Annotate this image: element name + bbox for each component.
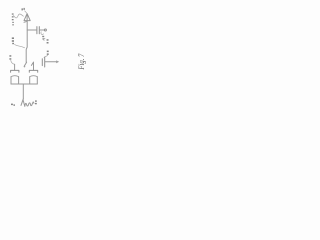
capacitor C26 bottom plate <box>30 75 38 78</box>
coil L30 <box>21 99 34 106</box>
label 30 <box>11 104 15 106</box>
capacitor C24 bottom plate <box>11 75 19 78</box>
svg-text:Fig. 7: Fig. 7 <box>76 53 86 71</box>
node label 10 <box>12 13 14 25</box>
capacitor C26 lead <box>33 62 35 70</box>
capacitor C16 <box>37 27 39 34</box>
antenna base tick <box>24 21 27 24</box>
ground bus <box>11 84 37 99</box>
capacitor C24 legs <box>11 77 19 84</box>
transistor Q2 lead arrow <box>31 62 33 65</box>
label 22 leader <box>43 38 45 40</box>
label 14 leader <box>15 44 25 47</box>
capacitor C34 <box>42 57 44 67</box>
output wire <box>45 61 57 63</box>
label 14 <box>12 37 14 44</box>
wire branch to C16 <box>27 29 36 31</box>
capacitor C26 top plate <box>29 70 37 72</box>
label 16 <box>42 36 44 40</box>
label 22 <box>47 39 49 43</box>
node label 12 leader <box>25 11 27 13</box>
junction dot <box>24 66 26 68</box>
label 34 leader <box>44 55 48 57</box>
wire antenna to node <box>26 21 27 62</box>
wire C16 to terminal <box>40 29 45 31</box>
capacitor C26 legs <box>30 77 38 84</box>
label 34 <box>47 51 49 55</box>
capacitor C24 lead <box>14 64 16 70</box>
node label 12 <box>22 8 25 10</box>
antenna A1 <box>24 14 30 21</box>
output arrow <box>56 60 59 63</box>
label 20 <box>9 55 11 60</box>
capacitor C24 top plate <box>11 70 19 72</box>
transistor Q1 emitter arrow <box>24 62 26 66</box>
label 16 leader <box>41 32 43 35</box>
node label 10 leader <box>13 14 23 18</box>
label 20 leader <box>11 60 14 64</box>
terminal node 18 <box>44 29 46 31</box>
label 32 <box>35 100 37 104</box>
